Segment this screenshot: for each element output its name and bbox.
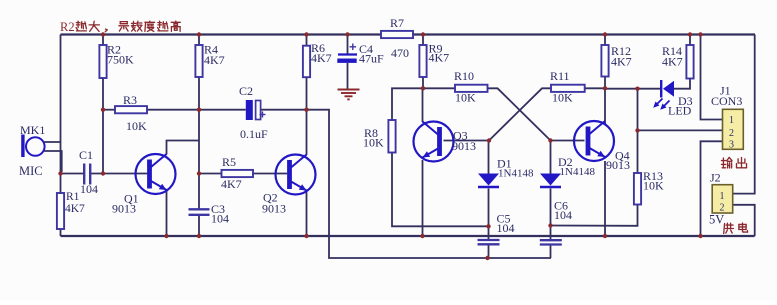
wire D3 anode row	[605, 88, 660, 90]
wire Q4 collector	[604, 88, 606, 125]
svg-text:10K: 10K	[363, 136, 384, 150]
junction node 25	[304, 234, 308, 238]
wire D2 anode lead	[550, 141, 552, 174]
junction node 28	[698, 234, 702, 238]
wire D3 to R14 bottom	[674, 79, 690, 89]
junction node 10	[304, 108, 308, 112]
svg-text:4K7: 4K7	[311, 51, 332, 65]
junction node 6	[688, 32, 692, 36]
wire MK1 bottom lead	[44, 151, 61, 172]
junction node 17	[197, 171, 201, 175]
svg-text:3: 3	[729, 140, 734, 151]
connector J1 CON3	[723, 109, 744, 150]
wire R5 left lead	[199, 173, 222, 175]
resistor R13 body	[634, 173, 641, 205]
capacitor C1	[84, 164, 90, 185]
wire R3 right lead to R4 node	[147, 109, 199, 111]
junction node 14	[548, 138, 552, 142]
svg-text:R2: R2	[60, 20, 75, 34]
svg-text:4K7: 4K7	[65, 203, 85, 215]
wire J1 pin3 to ground rail	[701, 141, 723, 236]
wire R3 left lead	[103, 109, 115, 111]
junction node 9	[197, 108, 201, 112]
svg-text:1: 1	[720, 191, 725, 202]
wire R4 top	[198, 35, 200, 46]
wire R9 top	[422, 35, 424, 46]
wire MK1 top lead	[44, 141, 60, 143]
svg-text:2: 2	[729, 128, 734, 139]
LED D3	[653, 80, 674, 110]
wire Q4 emitter to rail	[604, 161, 606, 236]
junction node 11	[421, 86, 425, 90]
svg-text:47uF: 47uF	[359, 52, 384, 66]
wire R4 node to C2	[199, 109, 246, 111]
junction node 3	[345, 32, 349, 36]
junction node 8	[101, 108, 105, 112]
diode D2 1N4148	[540, 174, 561, 188]
resistor R9 body	[419, 45, 426, 77]
wire trigger line (Q2 collector to C5/C6 bottoms)	[307, 110, 552, 258]
svg-text:470: 470	[391, 46, 409, 60]
wire C1 to Q1 base	[91, 173, 147, 175]
transistor Q3 9013	[414, 122, 454, 162]
wire +5V top rail right section	[413, 33, 755, 35]
wire right border upper (to J2 pin1)	[733, 35, 755, 194]
svg-text:9013: 9013	[452, 139, 476, 153]
svg-text:R10: R10	[454, 69, 474, 83]
label chinese power supply (J2)	[724, 223, 748, 234]
svg-text:1: 1	[729, 115, 734, 126]
junction node 0	[101, 32, 105, 36]
svg-text:LED: LED	[668, 104, 692, 118]
red note chinese: sensitivity text 2	[119, 21, 180, 31]
svg-text:R7: R7	[390, 16, 404, 30]
wire R3 node down to C1 node	[102, 110, 104, 174]
red note chinese: sensitivity text	[76, 21, 107, 32]
svg-text:4K7: 4K7	[611, 55, 632, 69]
svg-text:R11: R11	[550, 69, 570, 83]
wire Q1 collector jog	[167, 141, 200, 155]
junction node 24	[197, 234, 201, 238]
capacitor C5	[478, 240, 500, 244]
wire C2 to Q2 collector node	[261, 109, 307, 111]
wire C3 bottom to rail	[198, 215, 200, 236]
resistor R11 body	[551, 85, 585, 92]
wire R12 top	[604, 35, 606, 46]
svg-text:C1: C1	[79, 148, 93, 162]
wire D1 cathode to node and C5	[488, 189, 490, 240]
junction node 16	[101, 171, 105, 175]
wire left rail (mic bias)	[60, 35, 62, 194]
svg-text:9013: 9013	[262, 202, 286, 216]
capacitor C3	[189, 209, 210, 215]
svg-text:1N4148: 1N4148	[560, 166, 596, 178]
wire J1 pin2 output lead	[638, 129, 723, 131]
resistor R1 body	[57, 193, 64, 229]
junction node 20	[486, 224, 490, 228]
junction node 4	[421, 32, 425, 36]
svg-text:10K: 10K	[126, 119, 147, 133]
resistor R10 body	[455, 85, 488, 92]
wire Q1 emitter to rail	[166, 190, 168, 236]
wire Q3 emitter to rail	[422, 160, 424, 236]
resistor R14 body	[686, 45, 693, 79]
resistor R4 body	[195, 45, 202, 77]
junction node 27	[603, 234, 607, 238]
capacitor C6	[540, 240, 562, 244]
svg-text:0.1uF: 0.1uF	[240, 127, 268, 141]
junction node 1	[197, 32, 201, 36]
svg-text:CON3: CON3	[711, 94, 742, 108]
wire Q3 base lead	[444, 140, 490, 142]
wire R13 top (output node)	[637, 89, 639, 173]
resistor R7 body	[381, 31, 413, 38]
svg-text:4K7: 4K7	[221, 177, 242, 191]
svg-text:10K: 10K	[455, 91, 476, 105]
resistor R12 body	[601, 45, 608, 77]
wire R10 right + diagonal to Q4 base node	[488, 88, 551, 140]
wire R6 bottom to node	[306, 77, 308, 110]
wire ground bottom rail	[61, 235, 755, 237]
svg-text:C2: C2	[239, 84, 253, 98]
capacitor C2	[246, 100, 266, 120]
wire C5 bottom stub	[488, 245, 490, 259]
svg-text:104: 104	[497, 221, 515, 235]
wire R5 right lead to Q2 base	[253, 173, 287, 175]
svg-text:R1: R1	[66, 191, 80, 203]
junction node 22	[485, 256, 489, 260]
wire R2 top	[102, 35, 104, 46]
junction node 7	[698, 32, 702, 36]
svg-text:R5: R5	[222, 155, 236, 169]
wire R2 bottom to R3 node	[102, 78, 104, 111]
junction node 19	[635, 128, 639, 132]
wire R6 top	[306, 35, 308, 46]
microphone MK1	[21, 135, 44, 158]
svg-text:104: 104	[80, 182, 98, 196]
junction node 13	[487, 138, 491, 142]
svg-text:5V: 5V	[709, 213, 724, 227]
wire R14 top	[689, 35, 691, 46]
resistor R3 body	[115, 106, 147, 113]
wire J2 pin2 to ground rail	[733, 205, 755, 236]
label chinese output (J1)	[722, 158, 747, 169]
transistor Q4 9013	[574, 121, 614, 161]
diode D1 1N4148	[478, 174, 499, 188]
junction node 21	[548, 223, 552, 227]
svg-text:J2: J2	[710, 171, 721, 185]
wire D2 cathode to node and C6	[550, 189, 552, 241]
svg-text:9013: 9013	[606, 158, 630, 172]
svg-text:4K7: 4K7	[429, 51, 450, 65]
wire Q2 collector	[306, 110, 308, 155]
svg-text:R3: R3	[123, 93, 137, 107]
svg-text:MIC: MIC	[19, 164, 43, 178]
wire J1 pin1 to +5V rail	[701, 35, 723, 120]
wire R8 bottom to D1 node	[392, 153, 489, 227]
junction node 15	[58, 171, 62, 175]
junction node 23	[164, 234, 168, 238]
svg-text:4K7: 4K7	[662, 55, 683, 69]
wire R4 bottom long vertical to C3	[198, 77, 200, 209]
capacitor C4	[337, 44, 357, 63]
resistor R5 body	[222, 170, 254, 177]
connector J2	[712, 185, 733, 214]
wire R8 top lead	[392, 88, 423, 120]
svg-text:10K: 10K	[643, 179, 664, 193]
svg-text:10K: 10K	[552, 91, 573, 105]
wire +5V top rail left section	[61, 33, 382, 35]
svg-text:750K: 750K	[107, 53, 134, 67]
wire mic node to C1	[61, 173, 84, 175]
wire C4 bottom to ground symbol	[347, 63, 349, 89]
junction node 5	[603, 32, 607, 36]
resistor R8 body	[388, 120, 395, 153]
svg-text:104: 104	[211, 212, 229, 226]
wire C4 top	[347, 35, 349, 54]
svg-text:9013: 9013	[112, 202, 136, 216]
svg-text:MK1: MK1	[20, 123, 45, 137]
wire R9 bottom to node	[422, 77, 424, 88]
wire Q3 collector	[422, 88, 424, 122]
wire Q4 base lead	[551, 140, 585, 142]
svg-text:4K7: 4K7	[204, 53, 225, 67]
wire R11 left + diagonal to Q3 base node	[489, 88, 551, 140]
svg-text:104: 104	[554, 208, 572, 222]
wire ground link D2 node to R13 bottom	[551, 205, 638, 226]
wire node to R10	[423, 87, 455, 89]
wire R12 bottom to node	[604, 77, 606, 89]
svg-text:1N4148: 1N4148	[498, 168, 534, 180]
wire R1 bottom to rail	[60, 229, 62, 236]
transistor Q1 9013	[136, 154, 176, 194]
wire Q2 emitter to rail	[306, 191, 308, 236]
transistor Q2 9013	[276, 155, 316, 195]
junction node 12	[603, 86, 607, 90]
resistor R6 body	[303, 46, 310, 77]
junction node 18	[635, 87, 639, 91]
resistor R2 body	[99, 45, 106, 78]
ground (earth) below C4	[338, 90, 360, 100]
junction node 2	[304, 32, 308, 36]
wire R11 right to R12 node	[585, 87, 605, 89]
junction node 26	[420, 234, 424, 238]
wire C6 bottom stub	[550, 245, 552, 258]
wire D1 anode lead	[488, 141, 490, 174]
